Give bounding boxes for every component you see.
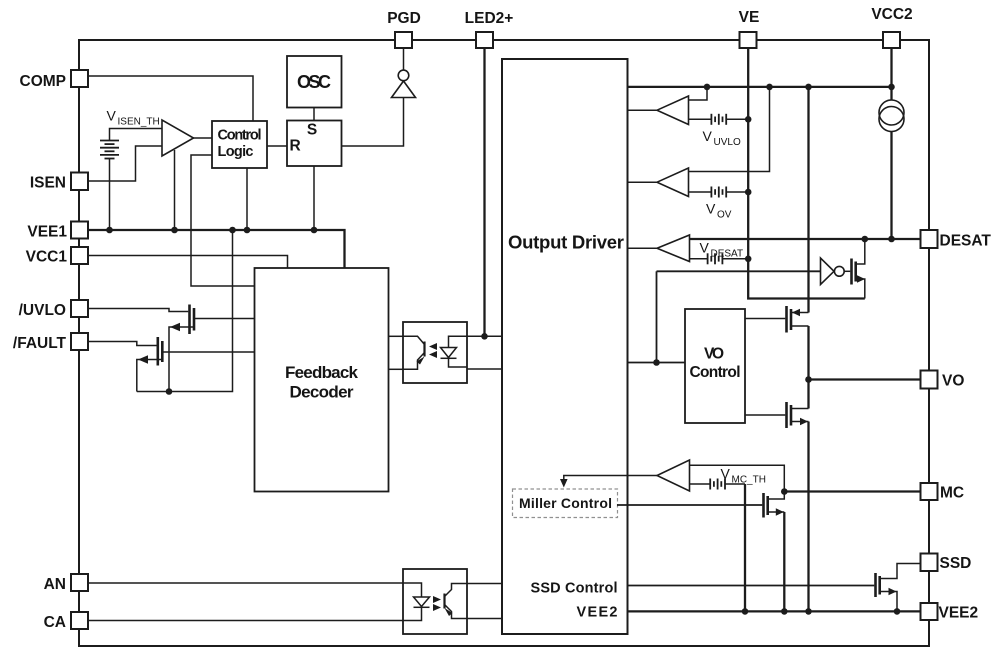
battery V_UVLO — [711, 114, 726, 125]
svg-text:V: V — [721, 466, 731, 482]
svg-text:UVLO: UVLO — [714, 137, 741, 148]
svg-text:DESAT: DESAT — [711, 249, 744, 260]
pin PGD — [395, 32, 412, 48]
wire VO row — [809, 378, 921, 380]
pin ISEN — [71, 173, 88, 191]
wire U15 upper input to MC node — [690, 465, 785, 491]
svg-text:S: S — [307, 122, 317, 139]
pin SSD — [921, 554, 938, 572]
svg-text:VO: VO — [942, 373, 964, 390]
comparator U12 (DESAT) — [657, 235, 690, 262]
pin VEE1 — [71, 222, 88, 239]
svg-text:VEE1: VEE1 — [27, 223, 67, 240]
wire inverter to PGD pin — [403, 48, 405, 70]
wire battery bottom to VEE1 — [109, 159, 111, 231]
transistor Q8 (SSD) — [876, 564, 921, 612]
wire DESAT row — [690, 238, 921, 240]
node inverter tap junction — [653, 359, 660, 366]
svg-text:VEE2: VEE2 — [939, 605, 979, 622]
wire SR latch to VEE1 — [313, 166, 315, 230]
svg-text:VO: VO — [704, 346, 724, 363]
optocoupler U7 (feedback) — [403, 322, 467, 383]
wire VCC1 to Feedback Decoder top — [88, 256, 288, 269]
svg-text:OV: OV — [717, 210, 732, 221]
svg-text:MC_TH: MC_TH — [732, 475, 766, 486]
wire opto U8 right stubs to Output Driver — [467, 583, 502, 585]
svg-text:AN: AN — [44, 576, 66, 593]
pin LED2+ — [476, 32, 493, 48]
wire OSC to S input — [313, 108, 315, 121]
current source I1 — [879, 100, 904, 125]
wire VCC2 top rail — [628, 86, 892, 88]
wire V_MC_TH return to VEE2 — [744, 484, 746, 611]
wire U1 output to Control Logic — [194, 137, 213, 139]
transistor Q2 (/FAULT) — [88, 337, 255, 392]
pin MC — [921, 483, 938, 500]
svg-text:Feedback: Feedback — [285, 363, 359, 382]
transistor Q1 (/UVLO) — [88, 305, 255, 392]
wire battery top to comparator + input — [110, 129, 163, 141]
pin VO — [921, 371, 938, 389]
svg-text:CA: CA — [44, 614, 66, 631]
block Feedback Decoder U6 — [255, 268, 389, 492]
transistor Q3 (DESAT discharge) — [852, 239, 866, 299]
wire VEE2 row — [628, 610, 921, 612]
node VEE2 junctions — [742, 608, 749, 615]
comparator U11 (OV) — [657, 168, 689, 197]
wire COMP to Control Logic top — [88, 76, 253, 121]
svg-text:COMP: COMP — [20, 73, 67, 90]
block Control Logic U2 — [212, 121, 267, 168]
svg-text:SSD Control: SSD Control — [531, 581, 618, 597]
wire LED2+ vertical — [483, 48, 485, 336]
node LED2+ junction — [481, 333, 488, 340]
svg-text:VCC2: VCC2 — [871, 6, 912, 23]
pin VEE2 — [921, 603, 938, 620]
pin /UVLO — [71, 300, 88, 317]
wire U1 to VEE1 — [174, 150, 176, 230]
comparator U10 (UVLO) — [657, 96, 689, 125]
block SR latch U4 — [287, 121, 342, 167]
pin DESAT — [921, 230, 938, 248]
wire CA row — [88, 620, 403, 622]
svg-text:ISEN_TH: ISEN_TH — [118, 117, 160, 128]
pin VE — [740, 32, 757, 48]
pin VCC1 — [71, 247, 88, 264]
svg-text:DESAT: DESAT — [940, 233, 992, 250]
svg-text:VEE2: VEE2 — [577, 605, 618, 621]
transistor Q7 (Miller clamp NMOS) — [764, 492, 785, 518]
svg-text:MC: MC — [940, 485, 964, 502]
wire inverter input from Miller line — [657, 270, 821, 272]
wire VCC2 pin vertical — [890, 48, 892, 100]
svg-text:V: V — [107, 108, 117, 124]
wire VO node vertical — [807, 326, 809, 409]
battery V_DESAT — [708, 253, 723, 264]
svg-text:/UVLO: /UVLO — [19, 302, 66, 319]
wire opto U7 right stubs to Output Driver — [467, 335, 502, 337]
block Miller Control (dashed) — [513, 489, 618, 518]
wire ISEN to comparator - input — [88, 146, 162, 181]
pin CA — [71, 612, 88, 629]
wire Q6 source to VEE2 — [807, 422, 809, 612]
wire opto U7 left stubs to Feedback Decoder — [389, 335, 404, 337]
wire AN row — [88, 582, 403, 584]
comparator U1 (ISEN) — [162, 120, 194, 156]
wire source bus to VEE1 — [137, 230, 233, 392]
wire SSD Control row — [628, 585, 875, 587]
optocoupler U8 (AN/CA input) — [403, 569, 467, 634]
svg-text:LED2+: LED2+ — [465, 10, 514, 27]
transistor Q6 (VO pull-down) — [745, 402, 809, 428]
wire U15 output arrow into Miller Control — [564, 476, 657, 484]
comparator U15 (Miller clamp) — [657, 460, 690, 491]
svg-text:ISEN: ISEN — [30, 175, 66, 192]
wire Output Driver to VO Control — [628, 362, 686, 364]
IC boundary border — [79, 40, 929, 646]
node source bus junction — [166, 388, 173, 395]
battery V_OV — [711, 187, 726, 198]
block Output Driver U9 — [502, 59, 628, 634]
svg-text:OSC: OSC — [297, 72, 331, 92]
inverter U5 (PGD driver) — [392, 81, 416, 98]
svg-text:Output Driver: Output Driver — [508, 232, 624, 253]
transistor Q5 (VO pull-up) — [745, 306, 809, 333]
wire VEE1 rail — [88, 230, 345, 268]
node DESAT row junctions — [862, 236, 869, 243]
node VO junction — [805, 376, 812, 383]
svg-text:V: V — [703, 128, 713, 144]
wire Miller Control to Q7 gate — [617, 504, 762, 506]
node MC junction — [781, 488, 788, 495]
svg-text:Miller Control: Miller Control — [519, 495, 612, 511]
block VO Control U14 — [685, 309, 745, 423]
wire Control Logic to Feedback Decoder — [191, 155, 255, 286]
inverter U13 — [821, 258, 835, 285]
wire Control Logic to SR latch R input — [267, 145, 287, 147]
node V_DESAT junction — [745, 255, 752, 262]
wire SR latch output to PGD inverter — [342, 98, 404, 147]
block OSC U3 — [287, 56, 342, 108]
wire VE pin vertical to DESAT source return — [748, 48, 865, 299]
battery V_MC_TH — [710, 479, 725, 490]
svg-text:V: V — [706, 201, 716, 217]
pin /FAULT — [71, 333, 88, 350]
wire VCC2 branch vertical — [807, 87, 809, 313]
pin VCC2 — [883, 32, 900, 48]
pin COMP — [71, 70, 88, 87]
svg-text:/FAULT: /FAULT — [13, 335, 67, 352]
svg-text:VE: VE — [739, 9, 760, 26]
node VE junctions — [745, 116, 752, 123]
svg-text:R: R — [290, 138, 301, 155]
wire Control Logic to VEE1 — [246, 168, 248, 230]
svg-text:Control: Control — [218, 128, 262, 144]
svg-text:V: V — [700, 240, 710, 256]
junction dots VEE1 row — [106, 227, 113, 234]
wire MC row — [784, 490, 920, 492]
node rail junctions — [704, 84, 711, 91]
battery V_ISEN_TH — [100, 141, 119, 159]
wire Q7 source to VEE2 — [783, 512, 785, 611]
pin AN — [71, 574, 88, 591]
svg-text:VCC1: VCC1 — [26, 249, 68, 266]
svg-text:SSD: SSD — [940, 555, 972, 572]
svg-text:Decoder: Decoder — [290, 383, 354, 402]
svg-text:Logic: Logic — [218, 144, 254, 160]
svg-text:PGD: PGD — [387, 10, 421, 27]
svg-text:Control: Control — [690, 364, 741, 381]
